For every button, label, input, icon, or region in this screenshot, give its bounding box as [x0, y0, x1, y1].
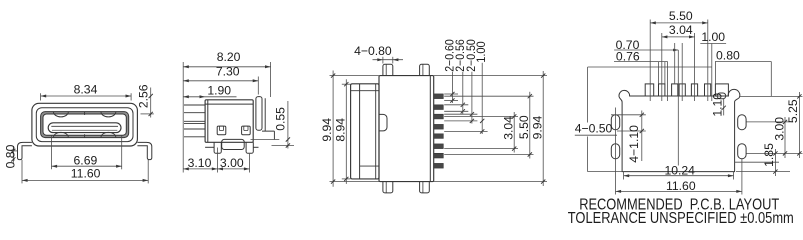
svg-text:1.00: 1.00 [701, 30, 725, 44]
view3 body right inner line [429, 76, 431, 182]
dim 4-1.10 line [641, 111, 643, 162]
view2 peg right [246, 142, 253, 153]
view2 center tab [222, 139, 245, 149]
svg-text:1.85: 1.85 [762, 143, 776, 167]
dim 11.60 v4 [616, 190, 742, 192]
dim 0.55 line [287, 101, 289, 149]
svg-text:4−0.80: 4−0.80 [354, 44, 392, 58]
view4 left slot centerline [615, 108, 617, 195]
dim 8.34 extension lines [40, 93, 42, 100]
dim 11.60 [22, 179, 148, 181]
dim 1.85 line [774, 149, 776, 176]
svg-text:8.94: 8.94 [333, 118, 347, 142]
svg-text:3.00: 3.00 [220, 156, 244, 170]
view4 shield pad right [715, 84, 728, 96]
view2 contact window right [242, 126, 251, 135]
dim 8.94 line [345, 79, 347, 184]
dim 3.04 line [513, 112, 515, 153]
dim 8.20 [183, 66, 270, 68]
view3 slab right inner vertical [375, 84, 377, 179]
svg-text:5.25: 5.25 [786, 99, 800, 123]
dim 5.50 line [529, 92, 531, 159]
view3 slab inner top line [351, 90, 379, 92]
dim 3.04 ext lines [444, 115, 518, 117]
dim 3.10 [183, 168, 217, 170]
label 2-0.56 leader [462, 72, 464, 114]
dim 5.50 ext lines [444, 95, 533, 97]
dim 4-1.10 ext lines [611, 114, 646, 116]
svg-text:5.50: 5.50 [517, 115, 531, 139]
view2 bottom plate lines [205, 146, 214, 148]
svg-text:10.24: 10.24 [664, 163, 695, 177]
dim 10.24 [624, 175, 734, 177]
view3 peg top-left [383, 64, 393, 75]
svg-text:0.80: 0.80 [716, 49, 740, 63]
view3 slab inner vertical [359, 84, 361, 179]
dim 4-0.80 line [373, 59, 404, 61]
view2 peg left [214, 142, 221, 153]
view1 mouth opening outer [41, 112, 129, 138]
dim 0.80 line [12, 146, 14, 164]
label 1.00 leader [481, 63, 483, 134]
svg-text:3.04: 3.04 [501, 116, 515, 140]
view4 slot pad right lower [738, 144, 746, 159]
view3 mating slab [351, 84, 379, 179]
svg-text:11.60: 11.60 [71, 166, 101, 180]
view3 peg top-right [420, 64, 430, 75]
view1 center tick top [84, 112, 86, 115]
view1 dimple top-right [101, 112, 116, 117]
dim 9.94 right ext lines [434, 75, 547, 77]
dim v4 3.04 [662, 36, 695, 38]
view1 tongue [48, 123, 121, 133]
view4 land-pattern outline with keyhole notches [619, 89, 740, 171]
dim 1.10 line [723, 99, 725, 115]
view3 key bump [379, 114, 387, 130]
view1 left foot [18, 142, 32, 159]
view4 right slot ext line [741, 159, 743, 195]
dim v4 5.50 [650, 22, 708, 24]
svg-text:1.90: 1.90 [207, 84, 231, 98]
view1 tongue contact line [51, 125, 118, 127]
svg-text:8.20: 8.20 [217, 50, 241, 64]
svg-text:0.55: 0.55 [273, 107, 287, 131]
svg-text:5.50: 5.50 [669, 9, 693, 23]
dim 7.30 [183, 80, 258, 82]
svg-text:4−0.50: 4−0.50 [575, 122, 613, 136]
view1 right foot [137, 142, 151, 159]
view4 slot pad left lower [611, 144, 619, 159]
svg-text:1.10: 1.10 [711, 93, 725, 117]
view2 body left inner line [207, 100, 209, 143]
view4 right ext lines [739, 95, 802, 97]
label 2-0.50 leader [471, 72, 473, 124]
dim 0.55 ext lines [251, 139, 280, 141]
view1 dimple bottom-left [54, 132, 69, 137]
svg-text:3.04: 3.04 [669, 23, 693, 37]
dim v4 3.04 ext lines [661, 33, 663, 101]
view2 pin leads [184, 104, 205, 106]
dim 8.94 ext lines [342, 83, 351, 85]
view4 slot pad right upper [738, 115, 746, 130]
dim 11.60 extension lines [21, 160, 23, 184]
svg-text:0.80: 0.80 [3, 144, 17, 168]
dim 1.90 line [183, 96, 236, 98]
view4 slot pad left upper [611, 115, 619, 130]
view2 left extension line [182, 62, 184, 173]
dim v4 5.50 ext lines [649, 20, 651, 102]
view2 body top inner line [205, 103, 253, 105]
dim 10.24 ext lines [623, 172, 625, 180]
svg-text:9.94: 9.94 [531, 115, 545, 139]
svg-text:4−1.10: 4−1.10 [627, 125, 641, 163]
dim 6.69 [52, 165, 122, 167]
dim 2.56 extension line [141, 113, 154, 115]
dim 9.94 right line [542, 71, 544, 186]
view3 peg bottom-right [420, 182, 430, 193]
view2 right flange [256, 97, 262, 131]
dim 9.94 left line [332, 71, 334, 187]
view3 slab inner bottom line [360, 165, 379, 167]
view1 shell inner outline [36, 108, 133, 142]
view3 body outline [379, 76, 434, 182]
dim 3.10 3.00 ext lines [216, 148, 218, 173]
view1 dimple top-left [54, 112, 69, 117]
dim 9.94 left ext lines [330, 75, 380, 77]
svg-text:11.60: 11.60 [666, 179, 696, 193]
label 2-0.60 leader [451, 72, 453, 103]
view1 mouth opening inner [43, 114, 126, 135]
svg-text:TOLERANCE UNSPECIFIED ±0.05mm: TOLERANCE UNSPECIFIED ±0.05mm [568, 210, 794, 227]
view2 contact window left [217, 126, 226, 135]
view1 shell outer outline [32, 103, 137, 146]
dim 0.80 ext [11, 150, 17, 152]
dim 3.00 line [784, 117, 786, 158]
svg-text:2.56: 2.56 [137, 84, 151, 108]
svg-text:9.94: 9.94 [320, 118, 334, 142]
dim 8.34 [41, 95, 132, 97]
dim 3.00 [217, 168, 249, 170]
view1 dimple bottom-right [101, 132, 116, 137]
view2 right bracket [262, 98, 274, 139]
view4 shield slot oval [717, 93, 726, 99]
view3 peg bottom-left [383, 182, 393, 193]
dim 6.69 extension lines [51, 136, 53, 170]
svg-text:1.00: 1.00 [475, 41, 488, 63]
view4 smt pads row [645, 84, 654, 96]
dim 4-0.80 ext lines [382, 57, 384, 64]
view1 mouth opening grey band [42, 113, 128, 137]
view4 pad edge construction lines [658, 62, 660, 84]
view1 center tick bottom [84, 134, 86, 137]
dim 5.25 line [798, 92, 800, 158]
svg-text:3.10: 3.10 [188, 156, 212, 170]
svg-text:7.30: 7.30 [216, 64, 240, 78]
view3 pins (8 solder leads) [434, 94, 444, 99]
svg-text:8.34: 8.34 [74, 82, 98, 96]
svg-text:3.00: 3.00 [773, 117, 787, 141]
view2 body outline [205, 100, 253, 143]
dim 8.20 right ext [270, 62, 272, 97]
view4 construction line [588, 66, 712, 68]
dim 2.56 line [150, 88, 152, 118]
dim 7.30 right ext [257, 77, 259, 95]
